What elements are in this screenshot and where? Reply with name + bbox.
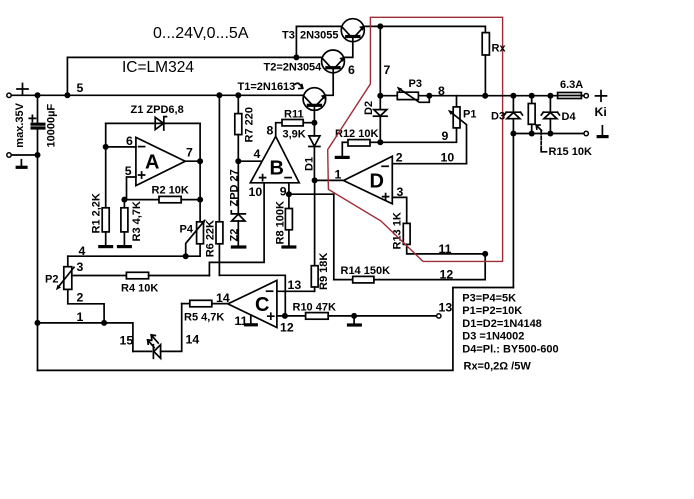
wire IC supply — [67, 57, 296, 95]
junction P4 wiper — [183, 253, 189, 259]
svg-text:15: 15 — [120, 334, 134, 348]
svg-text:12: 12 — [280, 321, 294, 335]
wire T3 emitter — [364, 26, 485, 32]
svg-text:9: 9 — [280, 185, 287, 199]
junction R7 top — [235, 92, 241, 98]
svg-text:R8 100K: R8 100K — [275, 201, 287, 244]
junction R6 top — [216, 92, 222, 98]
junction T2 T3 collector — [293, 54, 299, 60]
ground R1 — [98, 245, 113, 248]
junction R15 bottom — [529, 131, 535, 137]
resistor R13 — [403, 223, 485, 254]
svg-text:7: 7 — [384, 63, 391, 77]
svg-text:8: 8 — [438, 84, 445, 98]
svg-text:R11: R11 — [284, 109, 304, 121]
svg-text:R1 2,2K: R1 2,2K — [91, 193, 103, 233]
svg-text:P1=P2=10K: P1=P2=10K — [462, 305, 522, 317]
terminal output minus — [584, 131, 588, 135]
resistor R8 — [285, 194, 292, 246]
junction node 11 — [482, 251, 488, 257]
wire A pin5 — [127, 177, 136, 200]
svg-text:8: 8 — [267, 124, 274, 138]
svg-text:3: 3 — [77, 260, 84, 274]
ground R12 — [335, 156, 350, 159]
resistor R15 — [528, 96, 546, 152]
wire P2 bottom — [68, 289, 104, 323]
junction R2 left — [121, 197, 127, 203]
resistor R9 — [311, 180, 318, 291]
svg-text:2N3055: 2N3055 — [300, 30, 339, 42]
wire node 1 rail — [38, 323, 133, 352]
svg-text:P3=P4=5K: P3=P4=5K — [462, 293, 516, 305]
transistor T2 — [322, 50, 346, 73]
junction IC supply on rail — [64, 92, 70, 98]
wire P1 bottom node9 — [380, 128, 456, 142]
junction P2 on rail1 — [101, 320, 107, 326]
svg-text:10: 10 — [441, 151, 455, 165]
wire to D apex — [315, 179, 344, 181]
svg-text:4: 4 — [79, 244, 86, 258]
svg-text:R2 10K: R2 10K — [152, 185, 189, 197]
ground R10 tap — [347, 316, 362, 325]
svg-text:12: 12 — [440, 268, 454, 282]
zener Z1 — [155, 117, 166, 130]
svg-text:R7 220: R7 220 — [243, 107, 255, 142]
resistor R7 — [235, 95, 242, 214]
junction left rail node 1 — [35, 320, 41, 326]
op-amp C — [228, 280, 277, 327]
svg-text:T2=2N3054: T2=2N3054 — [264, 62, 323, 74]
ground output — [597, 126, 609, 137]
wire A output — [185, 160, 200, 162]
svg-text:13: 13 — [439, 301, 453, 315]
capacitor C 10000uF — [29, 95, 45, 155]
svg-text:13: 13 — [288, 278, 302, 292]
terminal output plus — [584, 94, 588, 98]
resistor R5 — [182, 300, 228, 307]
plus sign output — [596, 91, 607, 102]
wire node B pin4 — [238, 160, 261, 162]
diode D3 — [504, 96, 522, 288]
svg-text:R15 10K: R15 10K — [549, 146, 592, 158]
svg-text:Z1 ZPD6,8: Z1 ZPD6,8 — [131, 104, 184, 116]
svg-text:D1: D1 — [303, 157, 315, 171]
terminal 13 — [437, 314, 441, 318]
junction D4 top — [547, 93, 553, 99]
wire D rail bottom — [513, 133, 583, 135]
wire minus terminal — [11, 154, 37, 156]
wire node 12 — [374, 254, 485, 280]
svg-text:P2: P2 — [45, 274, 58, 286]
terminal - input — [7, 153, 11, 157]
diode D1 — [309, 123, 320, 181]
red outline — [328, 17, 503, 261]
svg-text:R3 4,7K: R3 4,7K — [131, 201, 143, 241]
svg-text:T3: T3 — [282, 30, 295, 42]
resistor R11 — [282, 120, 314, 126]
junction A out — [197, 158, 203, 164]
svg-text:B: B — [270, 158, 284, 180]
junction R12 D2 — [377, 139, 383, 145]
zener Z2 — [231, 211, 245, 246]
junction R2 right — [197, 197, 203, 203]
resistor R6 — [216, 95, 223, 275]
wire left vertical rail — [37, 155, 39, 370]
svg-text:1: 1 — [335, 168, 342, 182]
junction Rx bottom — [482, 93, 488, 99]
svg-text:10000µF: 10000µF — [46, 104, 58, 148]
svg-text:6: 6 — [126, 134, 133, 148]
svg-text:5: 5 — [125, 164, 132, 178]
svg-text:R6 22K: R6 22K — [205, 220, 217, 257]
resistor Rx — [482, 33, 489, 96]
svg-text:T1=2N1613: T1=2N1613 — [238, 81, 296, 93]
svg-text:1: 1 — [77, 310, 84, 324]
svg-text:D2: D2 — [363, 101, 375, 115]
fuse 6.3A — [558, 93, 584, 99]
LED — [133, 304, 182, 359]
svg-text:D3: D3 — [491, 111, 505, 123]
junction B pin9 — [286, 191, 292, 197]
svg-text:R13 1K: R13 1K — [391, 212, 403, 249]
wire R6 to C — [219, 275, 285, 316]
svg-text:14: 14 — [186, 333, 200, 347]
transistor T1 — [303, 88, 326, 123]
svg-text:A: A — [145, 152, 159, 174]
wire A pin6 — [106, 146, 136, 148]
potentiometer P2 — [56, 256, 74, 290]
svg-text:4: 4 — [254, 147, 261, 161]
svg-text:R9 18K: R9 18K — [318, 253, 330, 290]
svg-text:P3: P3 — [409, 78, 422, 90]
svg-text:5: 5 — [77, 81, 84, 95]
svg-text:D1=D2=1N4148: D1=D2=1N4148 — [462, 318, 542, 330]
potentiometer P1 — [448, 96, 467, 164]
junction C pin12 — [282, 313, 288, 319]
wire T2 collector — [296, 56, 321, 58]
junction node7 top — [377, 23, 383, 29]
svg-text:R5 4,7K: R5 4,7K — [184, 312, 224, 324]
wire A feedback left — [105, 123, 107, 207]
svg-text:2: 2 — [396, 151, 403, 165]
junction R15 top — [529, 93, 535, 99]
svg-text:R10 47K: R10 47K — [293, 302, 336, 314]
wire T2 emitter to T3 base — [344, 37, 353, 58]
wire T1 emitter — [326, 68, 334, 96]
svg-text:ZPD 27: ZPD 27 — [228, 169, 240, 206]
resistor R2 — [124, 196, 200, 202]
svg-text:Z2: Z2 — [228, 229, 240, 242]
wire node 4 — [68, 244, 200, 256]
wire output bus — [380, 95, 557, 97]
svg-text:14: 14 — [216, 291, 230, 305]
diode D2 — [374, 26, 388, 142]
junction node D1 bottom — [312, 177, 318, 183]
svg-text:C: C — [255, 294, 269, 316]
resistor R3 — [121, 200, 128, 246]
parts list — [462, 293, 558, 373]
ground C pin11 — [244, 315, 258, 325]
wire B pin9 — [289, 183, 334, 194]
resistor R12 — [342, 140, 380, 157]
op-amp B — [250, 136, 299, 182]
ground Z2 — [231, 245, 247, 248]
svg-text:9: 9 — [442, 129, 449, 143]
wire C pin12 — [277, 315, 306, 317]
wire node 9 vertical — [333, 194, 335, 279]
junction A pin6 — [103, 144, 109, 150]
svg-text:2: 2 — [77, 291, 84, 305]
junction D2 on bus — [377, 93, 383, 99]
wire B pin10 jog — [209, 183, 264, 276]
terminal + input — [7, 93, 11, 97]
resistor R4 — [72, 272, 210, 279]
diode D4 — [541, 96, 559, 134]
svg-text:R12 10K: R12 10K — [335, 128, 378, 140]
svg-text:Rx: Rx — [492, 43, 507, 55]
wire A output vertical — [199, 123, 201, 221]
junction R7 Z2 — [235, 158, 241, 164]
resistor R1 — [102, 208, 109, 246]
junction D3 top — [510, 93, 516, 99]
wire C pin13 — [277, 290, 315, 292]
junction ground tap — [351, 313, 357, 319]
wire T3 collector — [296, 26, 341, 57]
wire A feedback top — [106, 122, 200, 124]
svg-text:7: 7 — [186, 146, 193, 160]
svg-text:D: D — [370, 171, 384, 193]
plus sign input — [17, 84, 28, 95]
svg-text:0...24V,0...5A: 0...24V,0...5A — [153, 25, 249, 42]
potentiometer P4 — [186, 219, 206, 256]
potentiometer P3 — [397, 87, 430, 103]
svg-text:max.35V: max.35V — [14, 102, 26, 147]
wire B out to R11 — [276, 123, 282, 137]
resistor R14 — [334, 276, 374, 283]
pointer squiggle T1 — [295, 83, 303, 88]
op-amp D — [344, 156, 393, 204]
svg-text:D4: D4 — [562, 111, 577, 123]
svg-text:3,9K: 3,9K — [283, 129, 306, 141]
op-amp A — [136, 137, 185, 185]
junction cap top — [35, 92, 41, 98]
svg-text:Rx=0,2Ω /5W: Rx=0,2Ω /5W — [464, 360, 532, 372]
svg-text:11: 11 — [439, 242, 452, 256]
svg-text:IC=LM324: IC=LM324 — [122, 59, 194, 76]
svg-text:10: 10 — [249, 185, 263, 199]
junction D4 bottom — [547, 131, 553, 137]
svg-text:6: 6 — [348, 63, 355, 77]
wire bottom loop — [38, 288, 514, 371]
ground R3 — [117, 245, 132, 248]
svg-text:6.3A: 6.3A — [560, 79, 583, 91]
wire D pin2 — [392, 163, 466, 165]
svg-text:R4 10K: R4 10K — [121, 283, 158, 295]
svg-text:D3 =1N4002: D3 =1N4002 — [462, 331, 524, 343]
ground input — [16, 160, 28, 168]
wire raw rail — [11, 94, 303, 96]
wire D pin3 — [392, 197, 406, 223]
svg-text:P4: P4 — [180, 224, 194, 236]
resistor R10 — [306, 313, 437, 320]
junction cap bottom — [35, 152, 41, 158]
svg-text:D4=Pl.: BY500-600: D4=Pl.: BY500-600 — [462, 343, 558, 355]
junction T1 base R11 — [311, 120, 317, 126]
svg-text:Ki: Ki — [595, 105, 607, 119]
junction D3 bottom — [510, 131, 516, 137]
svg-text:P1: P1 — [463, 109, 476, 121]
junction P3 right — [426, 93, 432, 99]
ground R8 — [281, 245, 296, 248]
svg-text:R14 150K: R14 150K — [341, 265, 391, 277]
transistor T3 — [341, 19, 365, 42]
